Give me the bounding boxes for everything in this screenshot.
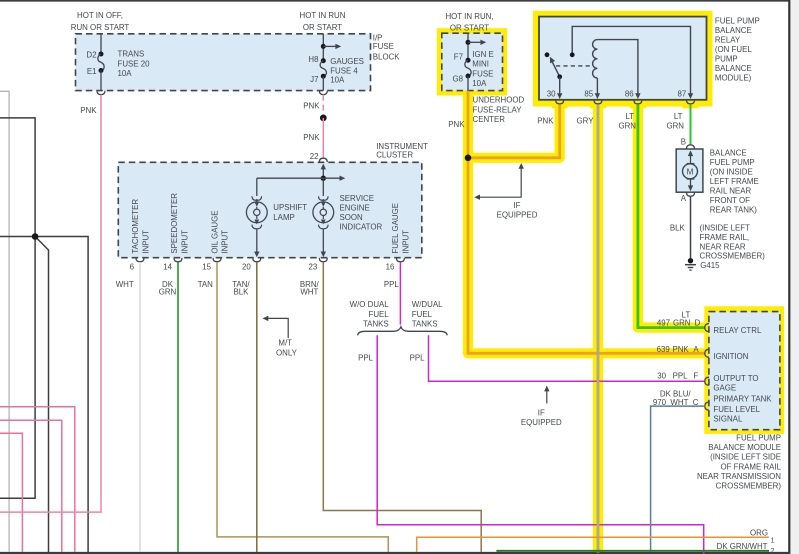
svg-text:UNDERHOOD: UNDERHOOD (473, 96, 525, 105)
motor: balance fuel pump (676, 149, 703, 192)
svg-text:F: F (693, 372, 698, 381)
split brace: W/O DUAL / W/DUAL FUEL TANKS (358, 327, 448, 336)
svg-text:TACHOMETER: TACHOMETER (131, 199, 140, 254)
lamp: SERVICE ENGINE SOON INDICATOR (322, 178, 324, 196)
svg-text:23: 23 (309, 263, 318, 272)
wire: dark context wire from left edge to lower-left (0, 118, 35, 498)
svg-text:B: B (681, 137, 686, 146)
wire: dark context diagonal branch (35, 237, 48, 553)
I/P fuse block box (76, 34, 371, 91)
pin 16 terminal (396, 258, 404, 262)
wire PNK: TRANS fuse down to left edge (0, 95, 101, 512)
highlight band: GRY wire relay pin85 down (593, 105, 603, 554)
pin F terminal (705, 377, 709, 385)
svg-text:SERVICE: SERVICE (340, 194, 375, 203)
svg-text:FUEL PUMP: FUEL PUMP (710, 158, 755, 167)
svg-text:LT: LT (625, 112, 634, 121)
highlight band: PNK wire fuse-to-module (468, 91, 705, 354)
svg-text:CROSSMEMBER): CROSSMEMBER) (700, 252, 766, 261)
svg-text:SIGNAL: SIGNAL (713, 415, 743, 424)
junction: dark context wires (32, 233, 39, 240)
svg-text:OR START: OR START (450, 24, 489, 33)
svg-text:TANKS: TANKS (412, 320, 438, 329)
svg-text:LT: LT (674, 112, 683, 121)
svg-text:FUEL PUMP: FUEL PUMP (715, 17, 760, 26)
svg-text:NEAR TRANSMISSION: NEAR TRANSMISSION (697, 472, 781, 481)
svg-text:FRAME RAIL,: FRAME RAIL, (700, 233, 750, 242)
wire TAN: pin 15 down and right (217, 262, 388, 552)
svg-text:20: 20 (242, 263, 251, 272)
svg-text:OUTPUT TO: OUTPUT TO (713, 374, 758, 383)
svg-text:OR START: OR START (303, 23, 342, 32)
svg-text:PNK: PNK (80, 106, 97, 115)
pin 20 terminal (253, 258, 261, 262)
svg-text:CROSSMEMBER): CROSSMEMBER) (716, 482, 782, 491)
wire PNK (highlighted): splice to relay pin 30 (468, 105, 560, 158)
wire TAN/BLK: pin 20 down (256, 262, 258, 552)
svg-text:EQUIPPED: EQUIPPED (497, 211, 538, 220)
svg-text:J7: J7 (310, 75, 318, 84)
svg-text:CLUSTER: CLUSTER (376, 151, 413, 160)
svg-text:RELAY CTRL: RELAY CTRL (713, 326, 762, 335)
svg-text:HOT IN RUN,: HOT IN RUN, (445, 12, 493, 21)
wire DK GRN/WHT: circuit 2 off right edge (496, 550, 769, 552)
svg-text:22: 22 (310, 152, 319, 161)
terminal B (687, 145, 695, 149)
svg-text:INPUT: INPUT (141, 230, 150, 254)
svg-text:14: 14 (163, 263, 172, 272)
relay K: fuel pump balance relay (539, 17, 707, 100)
fuse TRANS FUSE 20 10A (100, 34, 102, 54)
svg-text:FUEL: FUEL (412, 310, 433, 319)
svg-text:BALANCE: BALANCE (715, 64, 752, 73)
svg-text:GRN: GRN (618, 122, 636, 131)
svg-text:FUSE-RELAY: FUSE-RELAY (473, 106, 523, 115)
relay coil (593, 40, 598, 78)
pin 14 terminal (174, 258, 182, 262)
highlight band: LT GRN wire relay pin86-to-module (638, 105, 705, 328)
svg-text:OF FRAME RAIL: OF FRAME RAIL (720, 462, 781, 471)
wire: pink context wire 2 (0, 420, 62, 552)
wire BLK: pump A to ground (690, 197, 692, 258)
underhood fuse-relay center box (442, 33, 503, 90)
svg-text:FUEL GAUGE: FUEL GAUGE (391, 203, 400, 254)
svg-text:NEAR REAR: NEAR REAR (700, 242, 746, 251)
highlight band: PNK wire junction-to-relay pin30 (468, 105, 560, 158)
svg-text:FUSE 20: FUSE 20 (118, 59, 151, 68)
svg-text:EQUIPPED: EQUIPPED (521, 418, 562, 427)
svg-text:TRANS: TRANS (118, 50, 145, 59)
svg-text:INPUT: INPUT (401, 230, 410, 254)
svg-text:INSTRUMENT: INSTRUMENT (376, 142, 428, 151)
svg-text:ENGINE: ENGINE (340, 204, 370, 213)
svg-text:(ON INSIDE: (ON INSIDE (710, 168, 753, 177)
svg-text:F7: F7 (454, 52, 463, 61)
svg-text:IGN E: IGN E (472, 50, 493, 59)
svg-text:PPL: PPL (673, 372, 689, 381)
wire PPL: pin 16 down to split (399, 262, 401, 325)
svg-text:SPEEDOMETER: SPEEDOMETER (170, 193, 179, 254)
svg-text:PNK: PNK (303, 133, 320, 142)
wire PNK (dashed): GAUGES fuse to splice (322, 95, 324, 118)
svg-text:FUEL: FUEL (369, 310, 390, 319)
svg-text:GAUGES: GAUGES (330, 57, 364, 66)
wire ORG: circuit 1 off right edge (417, 537, 769, 552)
svg-text:PNK: PNK (672, 345, 689, 354)
svg-text:(INSIDE LEFT: (INSIDE LEFT (700, 224, 751, 233)
wire DK BLU/WHT: module pin C down (651, 406, 705, 552)
svg-text:30: 30 (547, 89, 556, 98)
svg-text:OIL GAUGE: OIL GAUGE (210, 210, 219, 253)
svg-text:TANKS: TANKS (363, 320, 389, 329)
svg-text:PNK: PNK (303, 101, 320, 110)
svg-text:W/O DUAL: W/O DUAL (350, 300, 390, 309)
svg-text:10A: 10A (118, 69, 133, 78)
svg-text:10A: 10A (330, 75, 345, 84)
pin D terminal (705, 324, 709, 332)
svg-text:(INSIDE LEFT SIDE: (INSIDE LEFT SIDE (710, 453, 781, 462)
wire LT GRN: relay pin 87 to pump B (690, 105, 692, 146)
wire PNK: splice to instrument cluster pin 22 (322, 118, 324, 158)
svg-text:BLK: BLK (670, 224, 686, 233)
svg-text:RAIL NEAR: RAIL NEAR (710, 187, 752, 196)
wire WHT: pin 6 down (139, 262, 141, 552)
wire LT GRN (highlighted): relay pin 86 to module pin D (638, 105, 705, 328)
svg-text:FUSE: FUSE (373, 42, 394, 51)
svg-text:RUN OR START: RUN OR START (71, 23, 130, 32)
svg-text:FUSE: FUSE (472, 69, 493, 78)
svg-text:GRY: GRY (577, 117, 595, 126)
svg-text:GRN: GRN (673, 319, 691, 328)
svg-text:D2: D2 (86, 50, 96, 59)
fuse GAUGES FUSE 4 10A (322, 34, 324, 61)
svg-text:30: 30 (657, 372, 666, 381)
svg-text:GRN: GRN (666, 122, 684, 131)
wire: internal feed branch with arrow (257, 177, 340, 179)
svg-text:HOT IN RUN: HOT IN RUN (300, 11, 346, 20)
svg-text:INPUT: INPUT (220, 230, 229, 254)
svg-text:PPL: PPL (358, 353, 374, 362)
svg-text:1: 1 (771, 535, 775, 544)
svg-text:10A: 10A (472, 79, 487, 88)
pin 22 terminal (319, 158, 327, 162)
lamp: UPSHIFT LAMP (256, 178, 258, 196)
svg-text:BLOCK: BLOCK (373, 52, 400, 61)
terminal A (687, 192, 695, 196)
pin C terminal (705, 402, 709, 410)
ground G415 (688, 258, 693, 263)
svg-text:(ON FUEL: (ON FUEL (715, 45, 752, 54)
svg-text:BLK: BLK (233, 288, 249, 297)
wire PPL: W/DUAL branch to module pin F (429, 335, 705, 381)
wire: dark context horizontal branch (0, 237, 88, 553)
wire PNK (highlighted): mini fuse down to module pin A (468, 91, 705, 354)
svg-text:BALANCE MODULE: BALANCE MODULE (708, 443, 781, 452)
svg-text:H8: H8 (308, 55, 319, 64)
svg-text:FUSE 4: FUSE 4 (330, 67, 358, 76)
svg-text:M: M (687, 167, 694, 176)
svg-text:A: A (681, 194, 687, 203)
svg-text:PNK: PNK (448, 120, 465, 129)
svg-text:E1: E1 (87, 67, 97, 76)
highlight band: fuel pump balance module box (704, 306, 784, 434)
wire GRY (highlighted): relay pin 85 down off page (597, 105, 600, 553)
junction: splice on PNK wire (320, 115, 327, 122)
wire: gray context wire from left edge (0, 91, 9, 552)
svg-text:GAGE: GAGE (713, 384, 736, 393)
svg-text:BALANCE: BALANCE (710, 148, 747, 157)
svg-text:WHT: WHT (300, 288, 318, 297)
svg-text:D: D (695, 319, 701, 328)
svg-text:BALANCE: BALANCE (715, 26, 752, 35)
svg-text:ONLY: ONLY (276, 348, 298, 357)
wire BRN/WHT: pin 23 down and right (323, 262, 481, 552)
svg-text:PNK: PNK (537, 117, 554, 126)
junction: PNK splice (465, 155, 472, 162)
svg-text:639: 639 (657, 345, 671, 354)
svg-text:MINI: MINI (472, 60, 489, 69)
svg-text:RELAY: RELAY (715, 35, 741, 44)
wire DK GRN: pin 14 down (177, 262, 179, 552)
svg-text:SOON: SOON (340, 213, 364, 222)
wire: pink context wire 3 (0, 433, 22, 552)
svg-text:497: 497 (657, 319, 670, 328)
svg-text:PRIMARY TANK: PRIMARY TANK (713, 394, 772, 403)
svg-text:IGNITION: IGNITION (713, 352, 748, 361)
svg-text:REAR TANK): REAR TANK) (710, 205, 757, 214)
svg-text:UPSHIFT: UPSHIFT (273, 203, 307, 212)
junction: node inside cluster (321, 176, 326, 181)
svg-text:16: 16 (386, 263, 395, 272)
pin 15 terminal (213, 258, 221, 262)
highlight band: fuel pump balance relay box (533, 11, 713, 107)
svg-text:FUEL LEVEL: FUEL LEVEL (713, 405, 760, 414)
svg-text:FUEL PUMP: FUEL PUMP (736, 434, 781, 443)
wire: pink context wire 1 (0, 407, 75, 552)
instrument cluster box (118, 162, 422, 257)
svg-text:LEFT FRAME: LEFT FRAME (710, 177, 759, 186)
label/pointer: M/T ONLY (263, 316, 269, 321)
svg-text:2: 2 (771, 546, 775, 554)
pin 6 terminal (136, 258, 144, 262)
svg-text:WHT: WHT (116, 280, 134, 289)
svg-text:85: 85 (584, 89, 593, 98)
svg-text:PUMP: PUMP (715, 55, 738, 64)
svg-text:GRN: GRN (159, 288, 177, 297)
svg-text:86: 86 (625, 89, 634, 98)
svg-text:W/DUAL: W/DUAL (412, 300, 443, 309)
svg-text:15: 15 (202, 263, 211, 272)
svg-text:MODULE): MODULE) (715, 74, 752, 83)
pointer: IF EQUIPPED (PPL) (546, 391, 548, 404)
svg-text:M/T: M/T (278, 339, 292, 348)
svg-text:CENTER: CENTER (473, 115, 506, 124)
highlight band: underhood mini fuse box (437, 28, 507, 95)
svg-text:INPUT: INPUT (180, 230, 189, 254)
svg-text:A: A (693, 345, 699, 354)
fuse IGN E MINI FUSE 10A (467, 33, 469, 60)
svg-text:TAN: TAN (198, 280, 213, 289)
svg-text:G415: G415 (700, 261, 720, 270)
pointer: IF EQUIPPED (PNK) (479, 168, 522, 197)
fuel pump balance module box (709, 312, 780, 430)
svg-text:IF: IF (513, 201, 520, 210)
svg-text:6: 6 (130, 263, 135, 272)
pin A terminal (705, 349, 709, 357)
svg-text:IF: IF (538, 409, 545, 418)
svg-text:ORG: ORG (750, 528, 768, 537)
svg-text:G8: G8 (452, 75, 463, 84)
svg-text:HOT IN OFF,: HOT IN OFF, (77, 11, 123, 20)
svg-text:INDICATOR: INDICATOR (340, 223, 383, 232)
pin 23 terminal (319, 258, 327, 262)
wire PPL: W/O DUAL branch down to bottom (377, 335, 704, 554)
svg-text:FRONT OF: FRONT OF (710, 196, 750, 205)
svg-text:87: 87 (678, 89, 687, 98)
svg-text:PPL: PPL (384, 280, 400, 289)
svg-text:DK GRN/WHT: DK GRN/WHT (717, 542, 768, 551)
svg-text:PPL: PPL (410, 353, 426, 362)
relay switch (572, 26, 690, 95)
svg-text:LAMP: LAMP (273, 213, 295, 222)
